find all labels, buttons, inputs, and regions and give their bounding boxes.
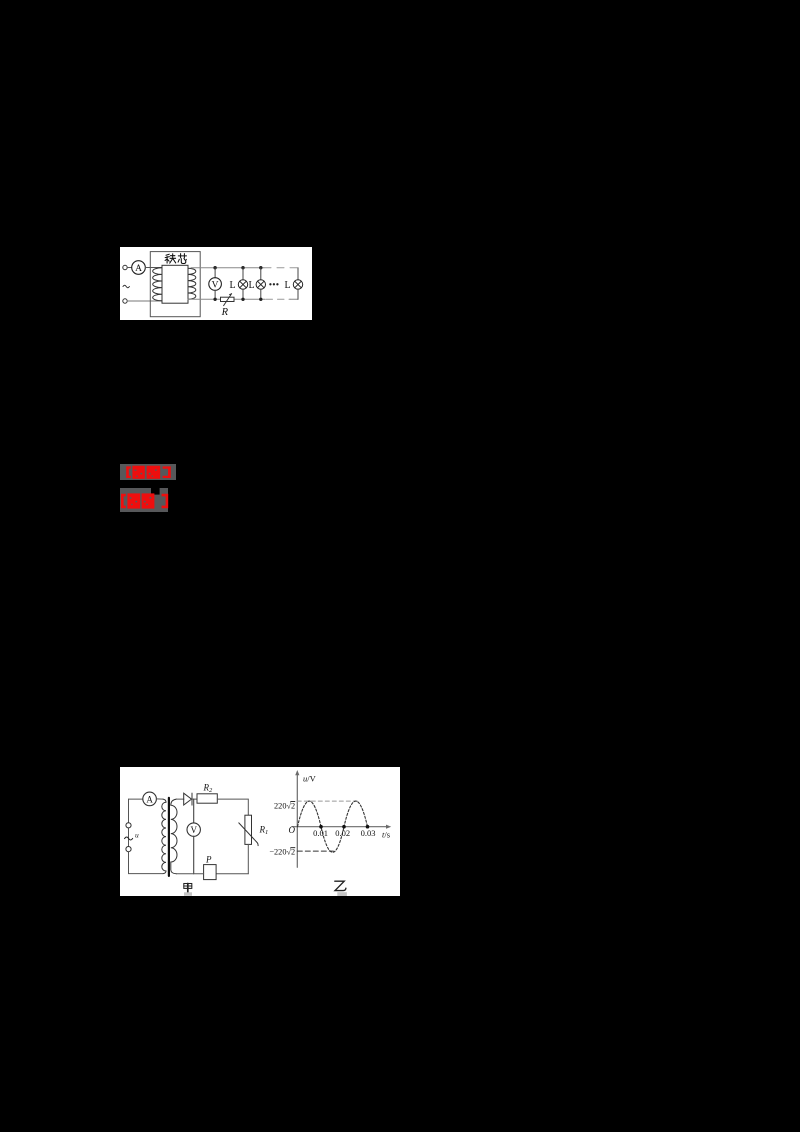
thermistor diagonal line [239, 823, 258, 846]
wire junction down to voltmeter [193, 799, 195, 823]
FIGURE 2 : rectifier circuit + waveform [120, 767, 400, 896]
gray mark under 甲 [184, 892, 192, 896]
transformer outer box [150, 252, 200, 317]
wire terminal to ammeter [127, 267, 131, 269]
top wire R2 to right corner [217, 799, 248, 815]
wire ammeter to primary coil [145, 267, 162, 269]
secondary winding [188, 268, 196, 299]
svg-text:V: V [190, 825, 197, 835]
axis label t/s [382, 830, 390, 840]
bottom rail right [216, 873, 248, 875]
FIGURE 1 : transformer with lamps [120, 247, 312, 320]
rheostat arrow [224, 293, 232, 305]
node lamp1 top [241, 266, 244, 269]
lamp L3 [293, 280, 302, 289]
wire V branch bottom [214, 290, 216, 299]
top rail solid [191, 267, 264, 269]
lamp L1 [238, 280, 247, 289]
primary winding [162, 799, 166, 874]
svg-text:A: A [146, 794, 153, 804]
diode D [184, 793, 192, 805]
thermistor R1 box [245, 815, 252, 844]
bottom rail left of P [177, 873, 204, 875]
label R2 [203, 783, 214, 795]
node t=0.01 [319, 825, 323, 829]
red label 2 [120, 488, 170, 512]
lamp L2 [256, 280, 265, 289]
wire lamp1 bottom [242, 289, 244, 299]
wire diode to R2 [191, 798, 197, 800]
left wire segments with source terminals [128, 799, 130, 874]
top wire to ammeter [129, 798, 143, 800]
voltmeter V [187, 823, 200, 836]
node t=0.03 [366, 825, 370, 829]
node lamp1 bottom [241, 298, 244, 301]
terminal top-left [123, 265, 127, 269]
resistor R2 box [197, 794, 217, 803]
ac source label ~ u [125, 831, 139, 841]
svg-text:O: O [289, 825, 296, 835]
tick label 0.03 [361, 828, 376, 838]
svg-text:u/V: u/V [303, 774, 317, 784]
component P box [204, 865, 217, 880]
red character 解 [127, 493, 140, 508]
svg-text:V: V [212, 281, 219, 291]
node V bottom [213, 298, 216, 301]
source terminal lower [126, 847, 131, 852]
red label 1 [120, 464, 176, 480]
black notch in gray band [151, 488, 160, 495]
wire lamp1 top [242, 268, 244, 280]
bottom rail dashed [266, 298, 290, 300]
wire primary bottom [129, 873, 164, 875]
red character 答 [132, 466, 144, 479]
svg-text:−220√2: −220√2 [269, 848, 295, 857]
secondary winding [171, 799, 177, 874]
label P [205, 854, 212, 864]
tick label 0.01 [313, 828, 328, 838]
transformer core bar [168, 798, 170, 876]
dashed level -220sqrt2 [297, 850, 333, 852]
label R1 [259, 825, 269, 837]
wire lamp3 bottom [297, 289, 299, 299]
red character 析 [142, 493, 155, 508]
label 220sqrt2 [274, 801, 295, 810]
ac source symbol ~ [123, 285, 129, 287]
origin O [289, 825, 296, 835]
label L2 [248, 280, 254, 291]
svg-text:A: A [135, 264, 142, 274]
red bracket right of 答案 [163, 466, 171, 478]
bottom rail solid [188, 298, 265, 300]
node V top [213, 266, 216, 269]
wire lamp2 bottom [260, 289, 262, 299]
svg-text:0.03: 0.03 [361, 828, 376, 838]
label L1 [229, 280, 235, 291]
wire V branch top [214, 268, 216, 278]
graph horizontal axis t/s [292, 825, 391, 829]
label 甲 [184, 884, 192, 893]
red character 案 [147, 466, 161, 479]
source terminal upper [126, 823, 131, 828]
label R [221, 307, 229, 318]
node lamp2 bottom [259, 298, 262, 301]
svg-text:P: P [205, 854, 212, 864]
svg-text:0.02: 0.02 [335, 828, 350, 838]
svg-text:220√2: 220√2 [274, 801, 295, 810]
axis label u/V [303, 774, 317, 784]
svg-text:R: R [221, 307, 229, 318]
ellipsis dots [269, 283, 278, 285]
ammeter A [132, 261, 146, 275]
label 乙 [335, 881, 346, 890]
terminal bottom-left [123, 299, 127, 303]
tick label 0.02 [335, 828, 350, 838]
dashed level +220sqrt2 [297, 800, 358, 802]
ammeter A [143, 792, 157, 806]
wire secondary top to diode [177, 798, 184, 800]
red bracket right of 解析 [162, 494, 169, 508]
node lamp2 top [259, 266, 262, 269]
node t=0.02 [342, 825, 346, 829]
wire lamp2 top [260, 268, 262, 280]
voltmeter V [209, 278, 222, 291]
label L3 [284, 280, 290, 291]
sine curve [298, 801, 368, 852]
svg-text:0.01: 0.01 [313, 828, 328, 838]
svg-text:L: L [284, 280, 290, 291]
primary winding [153, 268, 162, 301]
right wire down [247, 844, 249, 873]
label 铁芯 (iron core) [165, 254, 186, 264]
wire lamp3 top [297, 268, 299, 280]
bottom rail right solid [290, 298, 298, 300]
label -220sqrt2 [269, 848, 295, 857]
svg-text:t/s: t/s [382, 830, 390, 840]
gray mark under 乙 [337, 892, 347, 896]
svg-text:L: L [229, 280, 235, 291]
svg-text:u: u [135, 831, 139, 840]
graph vertical axis u/V [295, 770, 299, 867]
wire voltmeter to bottom rail [193, 836, 195, 874]
red bracket left of 解析 [121, 494, 126, 508]
transformer core (inner box) [162, 265, 188, 303]
wire terminal to primary coil bottom [127, 300, 162, 302]
rheostat R box [221, 297, 235, 301]
red bracket left of 答案 [126, 466, 131, 478]
wire ammeter to primary [156, 798, 163, 800]
svg-text:L: L [248, 280, 254, 291]
top rail dashed [264, 267, 298, 269]
